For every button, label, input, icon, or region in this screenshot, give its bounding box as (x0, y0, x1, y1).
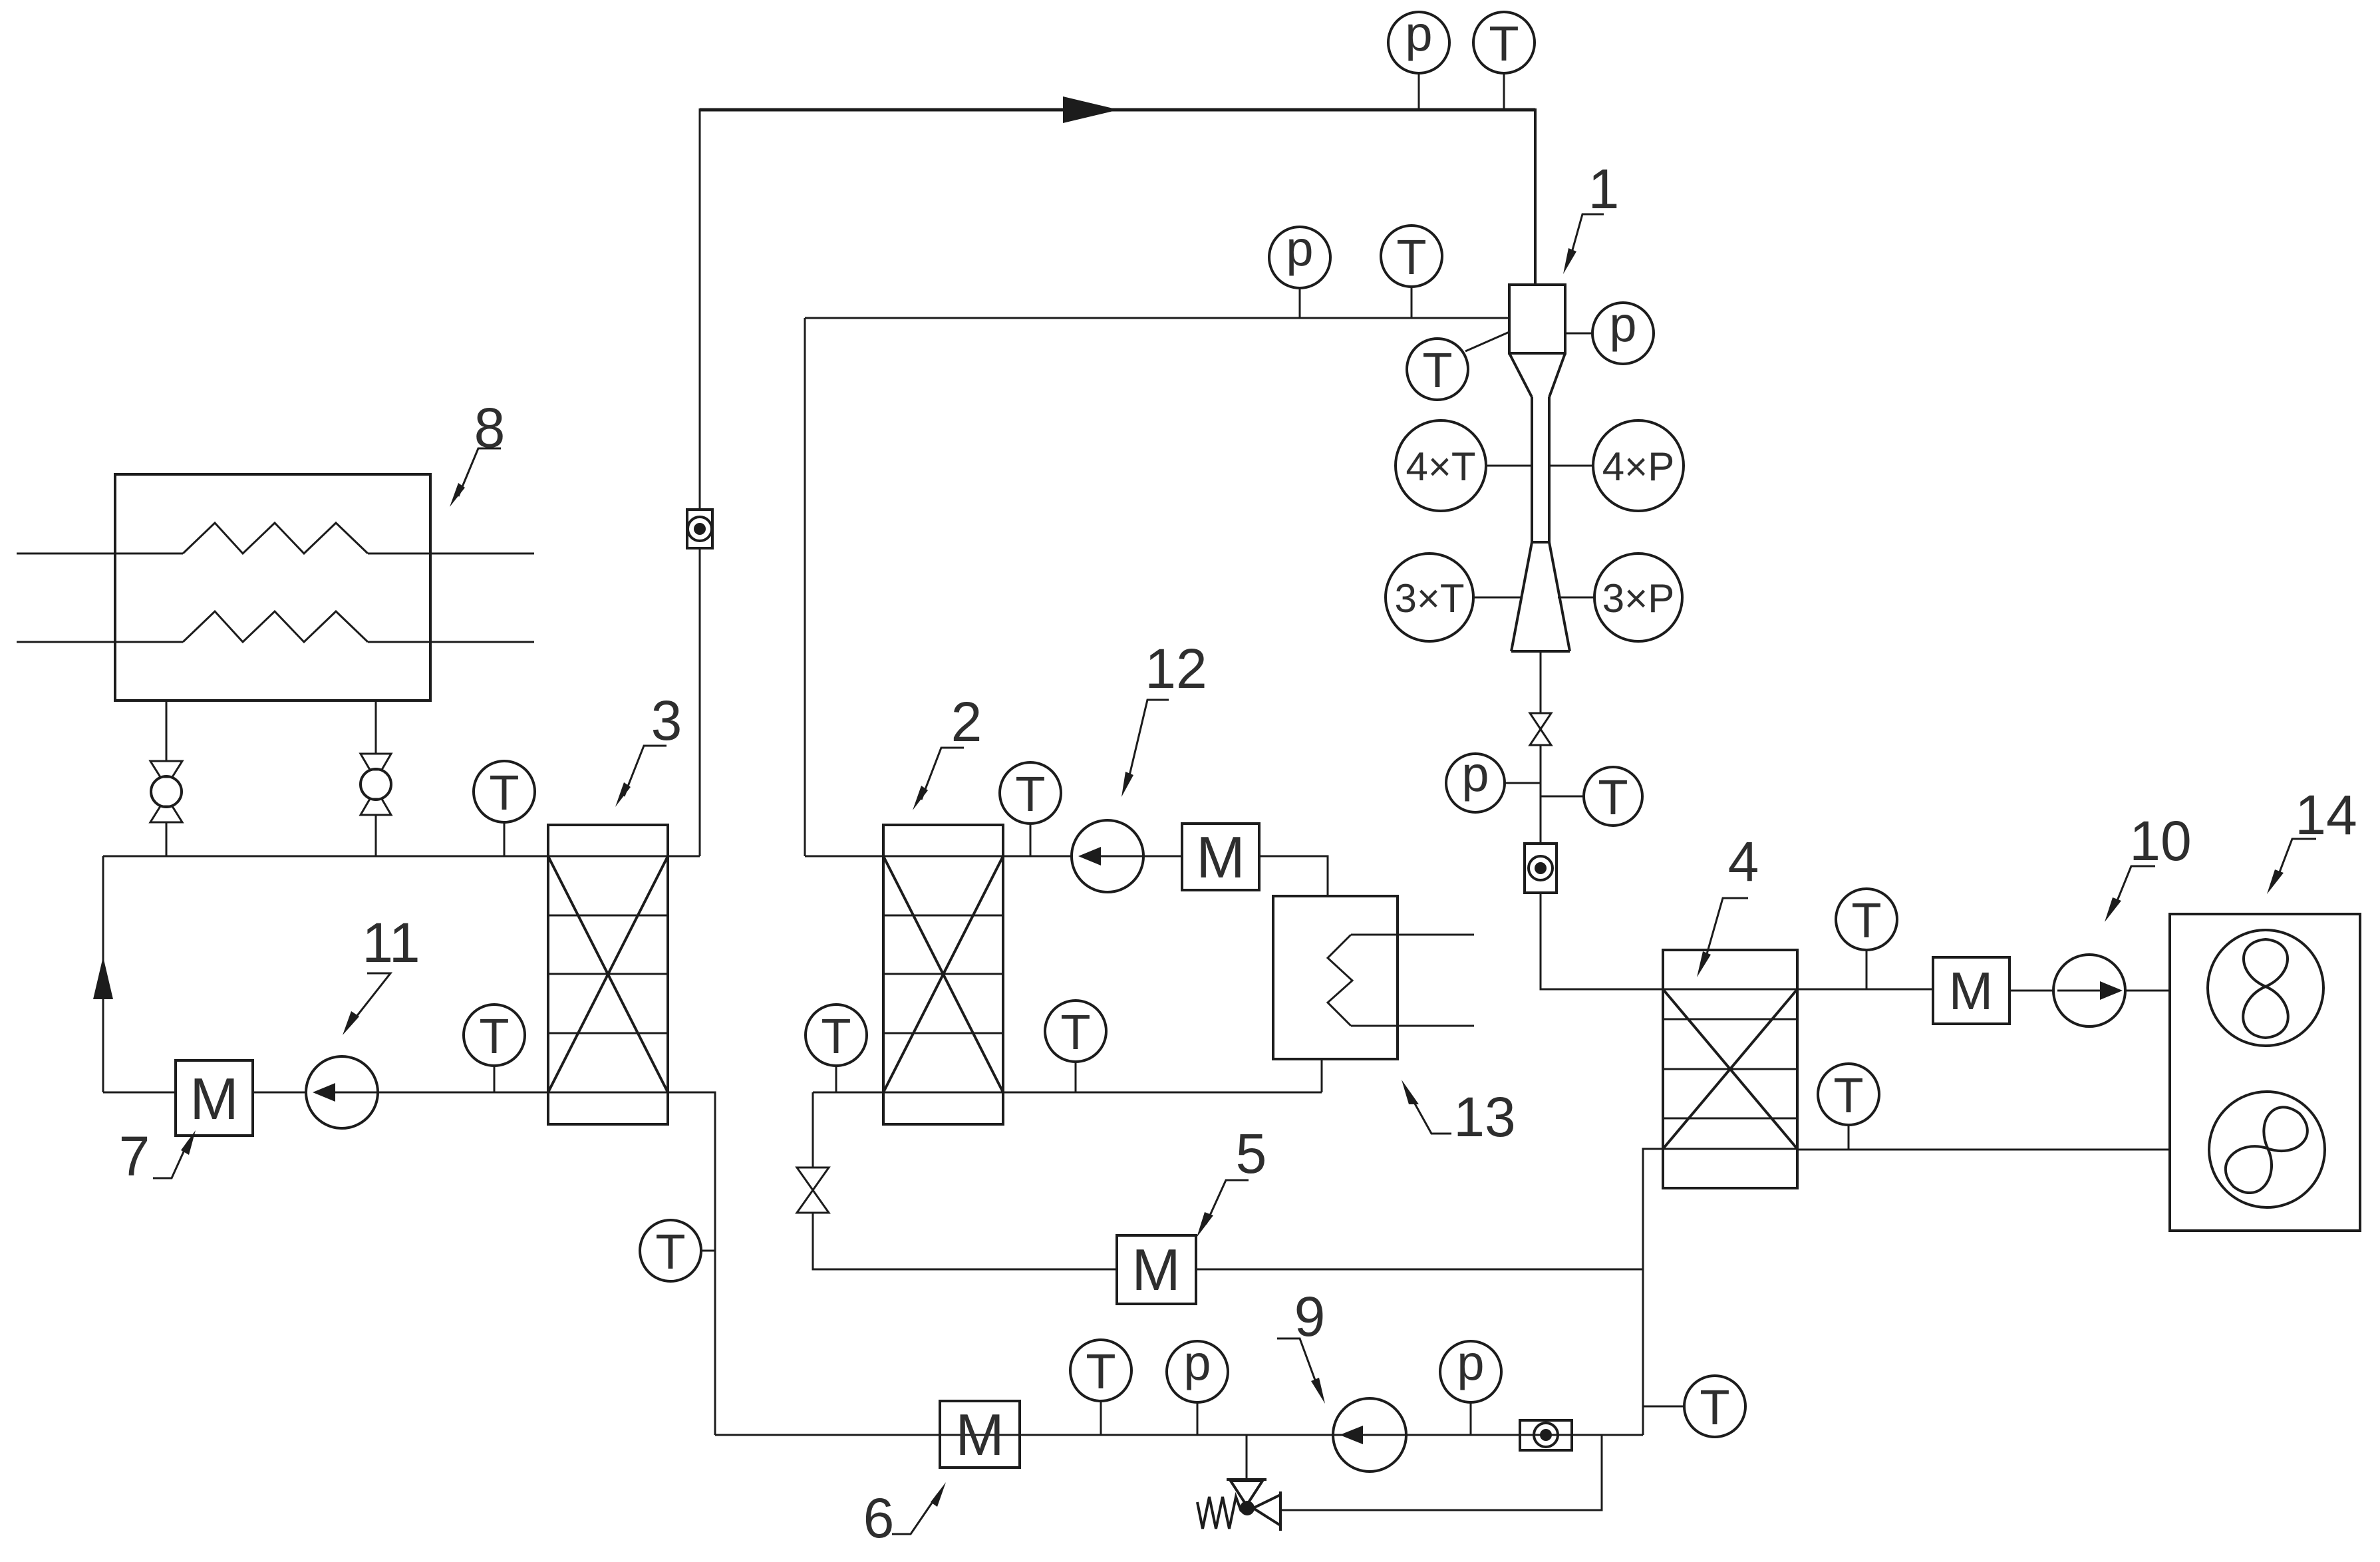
valve (below ejector) (1530, 713, 1551, 729)
wire: relief bypass return (1280, 1435, 1602, 1510)
pump 10 (2053, 955, 2125, 1026)
svg-text:T: T (1489, 16, 1519, 71)
svg-text:p: p (1457, 1335, 1484, 1390)
ejector 1 mixing head box (1509, 285, 1565, 353)
svg-text:14: 14 (2295, 784, 2357, 846)
wire: pump 10 to fan coil 14 (2125, 990, 2170, 992)
svg-text:p: p (1405, 6, 1432, 61)
gauge p (ejector head) (1565, 333, 1592, 335)
flowmeter M 5 (1117, 1235, 1196, 1304)
svg-text:M: M (1131, 1237, 1180, 1303)
svg-text:7: 7 (119, 1125, 150, 1187)
svg-text:T: T (479, 1009, 509, 1064)
wire: cooler 8 left drain stub (166, 701, 168, 761)
fan (top) (2208, 930, 2323, 1046)
wire: flowmeter 5 to ejector-outlet riser (1196, 1269, 1643, 1271)
svg-text:T: T (1422, 343, 1452, 398)
wire: flowmeter to heater 13 top (1259, 856, 1328, 896)
flow arrow on top line (1063, 96, 1119, 123)
gauge T (bottom line) (1100, 1401, 1102, 1435)
wire: diffuser outlet down (1540, 651, 1542, 713)
relief valve (spring loaded) (1227, 1478, 1266, 1481)
fan coil unit 14 (2170, 914, 2360, 1231)
svg-text:1: 1 (1588, 158, 1620, 220)
svg-text:12: 12 (1145, 637, 1207, 700)
gauge T (HX2 top outlet) (1030, 824, 1032, 856)
svg-text:3×P: 3×P (1602, 576, 1674, 621)
sight glass (ejector outlet) (1525, 844, 1557, 893)
svg-text:6: 6 (863, 1487, 895, 1549)
flowmeter M (loop 10) (1933, 957, 2009, 1024)
wire: suction line into ejector (805, 317, 1509, 319)
wire: bottom main line (715, 1434, 1643, 1436)
gauge T (ejector outlet) (1541, 796, 1584, 798)
heater element zigzag (1328, 935, 1352, 1026)
ejector converging nozzle (1509, 353, 1532, 397)
gauge 4xT (throat) (1486, 465, 1532, 467)
wire: down to expansion valve (812, 1092, 814, 1168)
wire: pump 11 to HX3 bottom left (378, 1092, 548, 1094)
svg-text:M: M (190, 1066, 238, 1132)
gauge p (bottom line) (1197, 1402, 1199, 1435)
svg-text:M: M (1949, 961, 1994, 1020)
ejector diffuser cone (1511, 542, 1532, 651)
svg-text:4: 4 (1728, 830, 1759, 893)
gauge T (loop top line) (504, 822, 506, 856)
wire: fan coil 14 return to HX4 bottom right (1797, 1149, 2170, 1151)
gauge T (HX2 bottom left) (835, 1066, 837, 1092)
electric heater 13 (1273, 896, 1398, 1059)
resistor element upper with leads (17, 553, 183, 555)
svg-text:10: 10 (2129, 810, 2191, 872)
HEAT EXCHANGER 2 (plate HX, middle) (883, 825, 1003, 1124)
wire: vertical from suction line down to HX2 (804, 318, 806, 856)
svg-text:p: p (1461, 746, 1489, 802)
svg-text:4×P: 4×P (1602, 444, 1674, 489)
HEAT EXCHANGER 4 (plate HX, right) (1663, 950, 1797, 1188)
svg-text:2: 2 (951, 691, 982, 753)
pump 9 (1333, 1398, 1406, 1472)
wire: jog into HX2 top left (805, 856, 883, 858)
globe valve (left, under cooler 8) (150, 761, 182, 777)
pump 12 (1072, 820, 1143, 892)
svg-text:T: T (1598, 770, 1628, 825)
gauge T (riser to bottom line) (1643, 1406, 1684, 1408)
wire: jog into HX3 top right (668, 856, 700, 858)
svg-text:T: T (489, 765, 519, 820)
wire: outlet continues down (1540, 745, 1542, 844)
svg-text:T: T (1396, 230, 1426, 285)
wire: tee down to relief valve (1246, 1435, 1248, 1480)
relief valve spring (1197, 1497, 1241, 1529)
svg-text:M: M (955, 1402, 1004, 1468)
gauge T (ejector head, diagonal tap) (1465, 332, 1509, 351)
sight glass (bottom line) (1520, 1420, 1572, 1450)
svg-text:T: T (1851, 893, 1881, 948)
wire: loop top line (103, 856, 548, 858)
wire: valve to loop top line (375, 815, 377, 856)
wire: HX4 top right to flowmeter (1797, 989, 1933, 991)
fan (bottom) (2209, 1092, 2325, 1207)
gauge T (HX2 bottom right) (1075, 1062, 1077, 1092)
flowmeter M 7 (176, 1060, 253, 1136)
svg-text:T: T (1833, 1068, 1863, 1123)
gauge T (HX4 top outlet) (1866, 950, 1868, 989)
flowmeter M (12 loop) (1182, 824, 1259, 890)
svg-text:T: T (1060, 1005, 1090, 1060)
gauge T (top line) (1503, 73, 1505, 110)
wire: loop left vertical (102, 856, 104, 1092)
HEAT EXCHANGER 3 (plate HX, left) (548, 825, 668, 1124)
gauge T (loop bottom line) (494, 1066, 496, 1092)
svg-text:T: T (1015, 766, 1045, 822)
svg-text:3: 3 (651, 689, 682, 752)
wire: sight glass down to HX3 (699, 548, 701, 856)
wire: heater 13 bottom to HX2 bottom line (1321, 1059, 1323, 1092)
gauge p (ejector outlet) (1505, 782, 1541, 784)
wire: HX3 bottom right jog (668, 1092, 715, 1435)
gauge T (return riser) (701, 1250, 715, 1252)
flow arrow up (loop left) (93, 957, 113, 999)
svg-text:T: T (1700, 1380, 1729, 1435)
wire: ejector discharge top line (700, 108, 1535, 112)
wire: flowmeter to pump 10 (2009, 990, 2053, 992)
gauge p (top line) (1418, 73, 1420, 110)
gauge p (after pump 9) (1470, 1402, 1472, 1435)
wire: HX2 top to pump 12 (1003, 856, 1072, 858)
expansion valve (797, 1168, 829, 1190)
wire: valve down and right to flowmeter 5 (813, 1213, 1117, 1269)
svg-text:13: 13 (1453, 1086, 1515, 1148)
svg-text:p: p (1609, 297, 1636, 352)
gauge p (suction line) (1299, 287, 1301, 318)
pump 11 (306, 1056, 378, 1128)
svg-text:T: T (1086, 1344, 1116, 1399)
gauge T (return line) (1848, 1125, 1850, 1150)
flowmeter M 6 (940, 1401, 1020, 1468)
wire: loop bottom line to flowmeter (103, 1092, 176, 1094)
wire: flowmeter 7 to pump 11 (253, 1092, 306, 1094)
wire: vertical from top line down to sight glass (699, 108, 701, 510)
gauge 3xT (diffuser) (1473, 597, 1521, 599)
svg-text:M: M (1196, 824, 1245, 890)
svg-text:11: 11 (362, 911, 420, 974)
globe valve (right, under cooler 8) (361, 754, 391, 770)
wire: HX4 bottom-left jog down to bottom main line (1643, 1149, 1663, 1435)
sight glass (condensate line) (687, 510, 712, 548)
svg-text:T: T (655, 1224, 685, 1279)
heater element leads (1351, 934, 1474, 936)
EXTERNAL COOLER 8 (top left) (115, 474, 430, 701)
svg-text:4×T: 4×T (1406, 444, 1475, 489)
resistor element lower with leads (17, 641, 183, 643)
ejector mixing throat tube (1531, 397, 1533, 542)
gauge T (suction line) (1411, 286, 1413, 318)
gauge 4xP (throat) (1549, 465, 1593, 467)
svg-text:p: p (1286, 221, 1313, 276)
svg-text:p: p (1183, 1335, 1211, 1390)
wire: HX2 bottom left line (813, 1092, 883, 1094)
wire: outlet to HX4 (1541, 893, 1663, 989)
svg-text:5: 5 (1236, 1122, 1267, 1185)
svg-text:T: T (821, 1009, 851, 1064)
svg-text:3×T: 3×T (1394, 576, 1464, 621)
wire: pump 12 to flowmeter M (1143, 856, 1182, 858)
wire: valve to loop top line (166, 822, 168, 856)
wire: vertical drop into ejector (1534, 108, 1537, 286)
gauge 3xP (diffuser) (1558, 597, 1594, 599)
wire: cooler 8 right drain stub (375, 701, 377, 754)
